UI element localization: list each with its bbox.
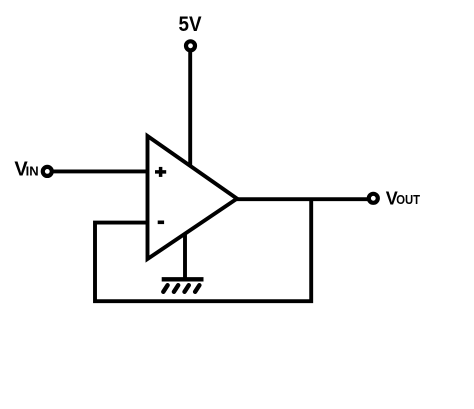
- svg-text:5V: 5V: [179, 13, 202, 36]
- svg-text:OUT: OUT: [396, 192, 420, 207]
- svg-text:IN: IN: [26, 163, 39, 178]
